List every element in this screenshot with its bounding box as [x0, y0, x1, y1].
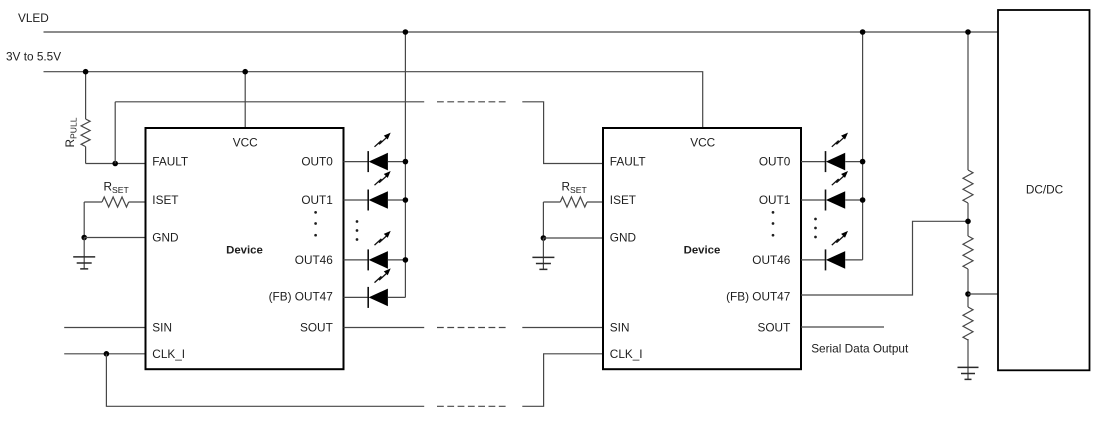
node divider top on VLED rail [965, 29, 971, 35]
wire CLK bottom rail dashed [437, 405, 506, 407]
wire RSET1 corner down to GND row [83, 202, 85, 238]
wire FAULT link dashed [437, 101, 506, 103]
LED D3 (U1 OUT46) [344, 249, 406, 270]
device U1 box [146, 128, 344, 369]
ellipsis LED column 1 [356, 220, 359, 241]
wire divider top from VLED [967, 32, 969, 170]
wire R2 to R3 [967, 269, 969, 307]
svg-text:SIN: SIN [610, 320, 630, 334]
LED D7 (U2 OUT46) [801, 249, 863, 270]
LED D3 emission arrow [375, 231, 391, 245]
node LED column 1 OUT46 [403, 257, 409, 263]
node LED column 1 OUT1 [403, 197, 409, 203]
svg-text:SOUT: SOUT [758, 320, 791, 334]
LED D7 emission arrow [832, 231, 848, 245]
svg-text:GND: GND [610, 231, 636, 245]
wire VLED top rail [44, 31, 999, 33]
wire LED column 1 to VLED [404, 32, 406, 297]
wire RSET2 corner down to GND row [542, 202, 544, 238]
svg-text:SOUT: SOUT [300, 320, 333, 334]
LED D4 (U1 OUT47) [344, 287, 406, 308]
LED D2 emission arrow [375, 171, 391, 185]
node VCC U1 junction dot [242, 69, 248, 75]
resistor RPULL (vertical) [81, 72, 90, 164]
svg-text:ISET: ISET [152, 193, 178, 207]
ellipsis U2 outputs [772, 211, 775, 237]
resistor RSET1 (horizontal) [84, 197, 145, 207]
ground symbol G3 [958, 367, 979, 379]
svg-text:VCC: VCC [690, 135, 715, 149]
node LED column 2 on VLED rail [860, 29, 866, 35]
wire node2 to DC/DC [968, 293, 998, 295]
node divider node2 junction dot [965, 291, 971, 297]
resistor R2 divider middle [963, 236, 973, 269]
LED D6 emission arrow [832, 171, 848, 185]
node GND2 junction dot [541, 235, 547, 241]
svg-text:OUT1: OUT1 [759, 193, 790, 207]
svg-text:Device: Device [684, 244, 721, 256]
wire RPULL bottom to U1 FAULT [86, 163, 146, 165]
svg-text:RSET: RSET [562, 179, 588, 195]
wire CLK bottom rail solid [106, 354, 424, 407]
LED D5 emission arrow [832, 133, 848, 147]
LED D4 emission arrow [375, 268, 391, 282]
svg-text:DC/DC: DC/DC [1026, 183, 1064, 197]
wire GND2 to U2 [543, 237, 603, 239]
svg-text:RSET: RSET [104, 179, 130, 195]
LED D1 (U1 OUT0) [344, 151, 406, 172]
wire FAULT link horizontal solid [115, 101, 424, 103]
resistor R3 divider bottom [963, 307, 973, 340]
svg-text:Device: Device [226, 244, 263, 256]
svg-text:Serial Data Output: Serial Data Output [811, 342, 909, 356]
svg-text:RPULL: RPULL [63, 117, 79, 147]
node RPULL top junction dot on 3V rail [83, 69, 89, 75]
svg-text:(FB) OUT47: (FB) OUT47 [726, 290, 790, 304]
svg-text:VLED: VLED [18, 11, 49, 25]
wire GND1 to U1 [84, 237, 145, 239]
wire CLK bottom rail to U2 CLK_I [522, 354, 603, 407]
LED D2 (U1 OUT1) [344, 190, 406, 211]
svg-text:OUT46: OUT46 [295, 253, 333, 267]
wire SIN1 input [64, 327, 145, 329]
svg-text:VCC: VCC [233, 135, 258, 149]
resistor R1 divider top [963, 170, 973, 203]
svg-text:OUT46: OUT46 [752, 253, 790, 267]
wire FAULT link to U2 FAULT [522, 102, 603, 164]
svg-text:OUT1: OUT1 [301, 193, 332, 207]
node LED column 2 OUT1 [860, 197, 866, 203]
ground symbol G2 [532, 238, 554, 269]
svg-text:CLK_I: CLK_I [152, 347, 185, 361]
DC/DC converter block [998, 10, 1090, 370]
node FAULT junction dot [112, 161, 118, 167]
node LED column 1 on VLED rail [403, 29, 409, 35]
wire 3V-5.5V rail with corner down to U2 VCC [44, 72, 703, 128]
svg-text:3V to 5.5V: 3V to 5.5V [6, 49, 61, 63]
wire SOUT1 to dashed link [344, 327, 425, 329]
ellipsis LED column 2 [814, 218, 817, 239]
wire R3 to ground [967, 339, 969, 379]
svg-text:ISET: ISET [610, 193, 636, 207]
wire VCC stub U1 [244, 72, 246, 128]
svg-text:OUT0: OUT0 [301, 155, 333, 169]
wire serial link to U2 SIN [522, 327, 603, 329]
svg-text:FAULT: FAULT [610, 155, 646, 169]
node GND1 junction dot [81, 235, 87, 241]
svg-text:CLK_I: CLK_I [610, 347, 643, 361]
svg-text:GND: GND [152, 231, 178, 245]
LED D6 (U2 OUT1) [801, 190, 863, 211]
LED D5 (U2 OUT0) [801, 151, 863, 172]
svg-text:(FB) OUT47: (FB) OUT47 [269, 290, 333, 304]
wire CLK_I1 input [64, 353, 145, 355]
node FB node1 junction dot [965, 219, 971, 225]
wire U2 OUT47 FB to divider node1 [801, 221, 968, 295]
svg-text:SIN: SIN [152, 320, 172, 334]
node LED column 2 OUT0 [860, 159, 866, 165]
wire LED column 2 to VLED [862, 32, 864, 260]
ground symbol G1 [73, 238, 95, 269]
wire serial link dashed [437, 327, 506, 329]
svg-text:OUT0: OUT0 [759, 155, 791, 169]
resistor RSET2 (horizontal) [543, 197, 603, 207]
wire FAULT link vertical [114, 102, 116, 164]
ellipsis U1 outputs [314, 211, 317, 237]
node CLK junction dot [104, 351, 110, 357]
device U2 box [603, 128, 801, 369]
node LED column 1 OUT0 [403, 159, 409, 165]
LED D1 emission arrow [375, 133, 391, 147]
svg-text:FAULT: FAULT [152, 155, 188, 169]
wire U2 SOUT output [801, 326, 884, 328]
wire R1 to R2 [967, 203, 969, 236]
